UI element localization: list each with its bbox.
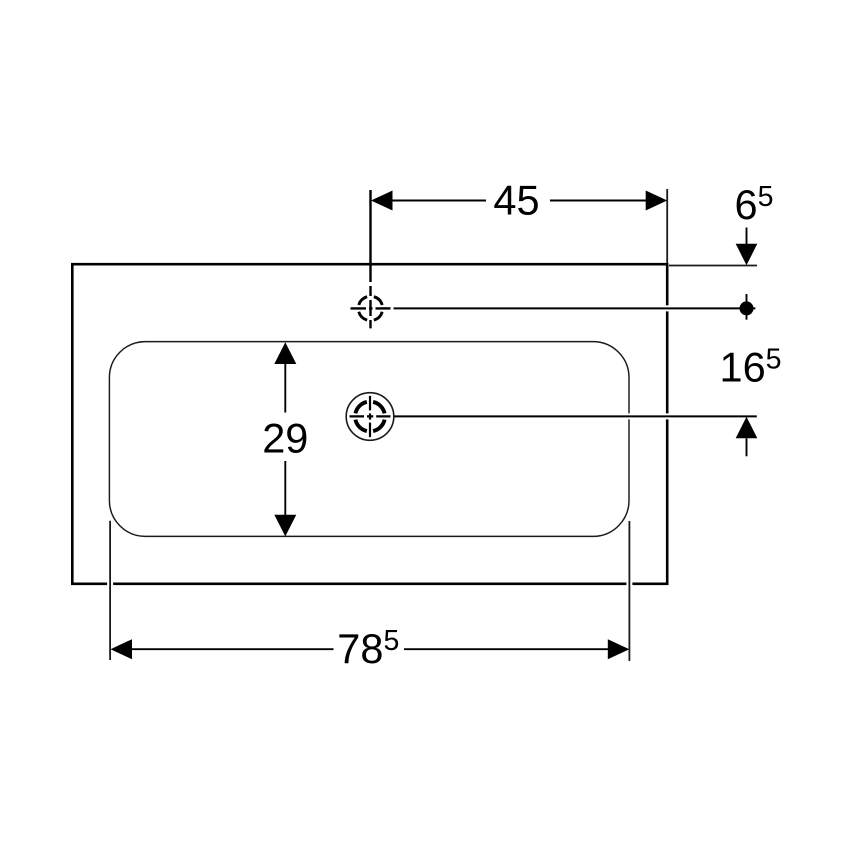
- reference dot vertical crosshair: [746, 294, 748, 320]
- faucet hole horizontal centerline (dash-dot): [351, 307, 391, 309]
- svg-text:29: 29: [262, 414, 308, 461]
- dimension line 45 left segment with arrow: [391, 200, 486, 202]
- svg-text:785: 785: [337, 625, 399, 672]
- faucet hole vertical centerline (dash-dot): [369, 190, 371, 328]
- dimension 29 vertical line lower segment with down arrow: [284, 461, 286, 517]
- basin inner outline (rounded rectangle): [109, 342, 629, 537]
- extension line right (45 dim, above rim corner): [666, 189, 668, 263]
- drain leader line (with halo over basin and rim edges): [394, 413, 757, 419]
- extension line at rim top level, to the right (6.5 dim reference): [669, 265, 757, 267]
- washbasin outer rim rectangle: [72, 264, 667, 584]
- 16.5 dim up arrow and stem: [736, 417, 758, 439]
- dimension line 78.5 left segment with arrow: [130, 648, 334, 650]
- extension line left (78.5 dim) with white halo: [107, 521, 113, 660]
- dimension 29 vertical line upper segment with up arrow: [284, 362, 286, 413]
- dimension line 45 right segment with arrow: [550, 200, 647, 202]
- svg-text:165: 165: [719, 344, 781, 391]
- svg-text:45: 45: [493, 177, 539, 224]
- drain horizontal centerline (dash-dot): [350, 415, 391, 417]
- drain outer circle: [346, 393, 394, 441]
- svg-text:65: 65: [735, 181, 774, 228]
- faucet hole circle (4 arcs with compass gaps): [359, 297, 382, 320]
- drain vertical centerline (dash-dot): [369, 396, 371, 437]
- faucet hole leader line to reference dot (with halo over rim edge): [394, 305, 756, 311]
- extension line right (78.5 dim) with white halo: [626, 521, 632, 661]
- 6.5 dim stem and down arrow: [746, 228, 748, 246]
- dimension line 78.5 right segment with arrow: [404, 648, 610, 650]
- drain inner thick circle (4 arcs with compass gaps): [355, 402, 384, 431]
- reference dot (shared dimension point): [740, 301, 754, 315]
